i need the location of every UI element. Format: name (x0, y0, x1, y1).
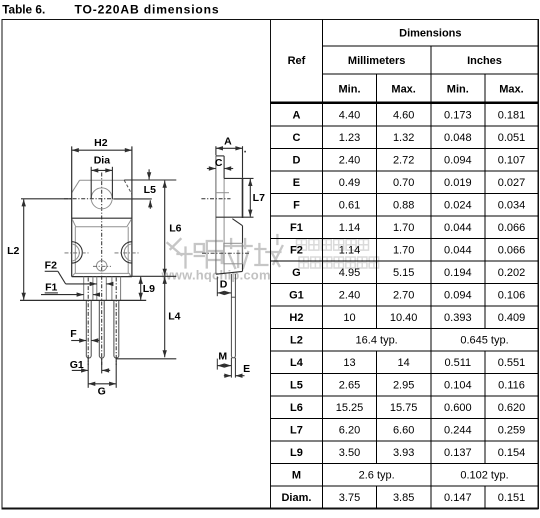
svg-text:3.93: 3.93 (393, 447, 414, 459)
svg-text:6.60: 6.60 (393, 425, 414, 437)
front view: body bottom corner diagonals (72, 273, 74, 276)
dim L2 top extension (21, 198, 72, 200)
front view: lead 3 shoulder (111, 277, 113, 301)
table grid lines (270, 20, 538, 509)
svg-text:0.094: 0.094 (444, 155, 472, 167)
svg-text:L6: L6 (169, 223, 181, 235)
svg-text:Dimensions: Dimensions (399, 27, 461, 39)
svg-text:10: 10 (343, 312, 355, 324)
svg-text:L9: L9 (143, 283, 155, 295)
svg-text:F1: F1 (290, 222, 303, 234)
svg-text:0.107: 0.107 (498, 155, 526, 167)
svg-text:10.40: 10.40 (390, 312, 418, 324)
side view: hole projection line (216, 192, 229, 194)
svg-text:0.173: 0.173 (444, 110, 472, 122)
dim L9 line (140, 277, 142, 300)
front view: body inner right face (127, 227, 129, 274)
watermark: small gray CJK lines right (297, 240, 379, 269)
front view: ejector pin circle (97, 261, 107, 271)
svg-text:L2: L2 (7, 245, 19, 257)
front view: body bottom inner line (75, 272, 130, 274)
svg-text:F: F (70, 328, 77, 340)
side view: hole centerline dashed (201, 198, 230, 200)
svg-text:0.88: 0.88 (393, 200, 414, 212)
svg-text:H2: H2 (289, 312, 303, 324)
svg-text:M: M (218, 351, 227, 363)
front view: vertical package centerline (101, 173, 103, 366)
front view: lead 3 narrow section (113, 300, 115, 356)
svg-text:0.194: 0.194 (444, 267, 472, 279)
dim G1 arrows (72, 369, 88, 371)
side view: body bottom edge (216, 271, 243, 274)
svg-text:0.70: 0.70 (393, 177, 414, 189)
svg-text:2.65: 2.65 (339, 380, 360, 392)
svg-text:0.154: 0.154 (498, 447, 526, 459)
side view: notch projection rectangle (224, 243, 243, 263)
dim C arrows (207, 168, 216, 170)
svg-text:2.95: 2.95 (393, 380, 414, 392)
svg-text:G1: G1 (289, 290, 304, 302)
seating plane line (20, 299, 146, 301)
svg-text:0.044: 0.044 (444, 222, 472, 234)
svg-text:1.32: 1.32 (393, 132, 414, 144)
front view: left side notch arcs (72, 242, 83, 263)
svg-text:1.70: 1.70 (393, 222, 414, 234)
svg-text:0.104: 0.104 (444, 380, 472, 392)
L5 lower reference extension (113, 198, 152, 200)
svg-text:Diam.: Diam. (281, 492, 311, 504)
svg-text:Ref: Ref (288, 55, 306, 67)
dim D line (217, 292, 231, 294)
front view: tab top edge (80, 179, 125, 181)
side view: notch centerline dashed (202, 252, 250, 254)
svg-text:0.019: 0.019 (444, 177, 472, 189)
front view: mounting hole (91, 188, 112, 209)
dim L2 line (23, 199, 25, 300)
svg-text:A: A (292, 110, 300, 122)
svg-text:L7: L7 (290, 425, 303, 437)
svg-text:F2: F2 (290, 245, 303, 257)
svg-text:Table 6.: Table 6. (2, 3, 45, 17)
svg-text:F: F (293, 200, 300, 212)
front view: lead 2 narrow section (98, 300, 100, 356)
dim L4 line (164, 277, 166, 358)
divider between figure and table (269, 20, 271, 510)
svg-text:Max.: Max. (391, 83, 415, 95)
front view: body bottom outer edge (72, 276, 132, 278)
front view: body step corner diagonals (72, 219, 76, 227)
side view: lead shoulder tick (231, 296, 235, 298)
svg-text:L2: L2 (290, 335, 303, 347)
front view: hole slot right edge / Dia extension (111, 167, 113, 199)
svg-text:TO-220AB dimensions: TO-220AB dimensions (75, 3, 220, 17)
svg-text:4.60: 4.60 (393, 110, 414, 122)
svg-text:Dia: Dia (94, 155, 111, 167)
side view: body top edge (224, 177, 253, 179)
front view: body top step line (76, 226, 127, 228)
front view: hole horizontal centerline (64, 198, 113, 200)
lead tips extension line (116, 358, 176, 360)
L5/L6 top extension line (124, 179, 176, 181)
svg-text:0.106: 0.106 (498, 290, 526, 302)
front view: tab bottom edge (72, 217, 132, 219)
svg-text:2.40: 2.40 (339, 155, 360, 167)
svg-text:E: E (243, 363, 250, 375)
svg-text:1.14: 1.14 (339, 245, 360, 257)
dim L5 lower arrow (149, 200, 151, 209)
dim E extension (234, 358, 236, 378)
svg-text:6.20: 6.20 (339, 425, 360, 437)
svg-text:0.147: 0.147 (444, 492, 472, 504)
svg-text:0.202: 0.202 (498, 267, 526, 279)
svg-text:2.40: 2.40 (339, 290, 360, 302)
svg-text:0.051: 0.051 (498, 132, 526, 144)
svg-text:0.61: 0.61 (339, 200, 360, 212)
svg-text:1.70: 1.70 (393, 245, 414, 257)
svg-text:14: 14 (398, 357, 410, 369)
svg-text:E: E (293, 177, 300, 189)
front view: lead 2 shoulder (96, 277, 98, 301)
svg-text:D: D (292, 155, 300, 167)
svg-text:15.25: 15.25 (336, 402, 364, 414)
dim A line (216, 147, 243, 149)
svg-text:0.645 typ.: 0.645 typ. (460, 335, 508, 347)
svg-text:0.066: 0.066 (498, 245, 526, 257)
svg-text:L4: L4 (290, 357, 304, 369)
G1/G extension lines below leads (87, 358, 89, 388)
svg-text:4.40: 4.40 (339, 110, 360, 122)
svg-text:Inches: Inches (467, 55, 502, 67)
stray dot (244, 151, 246, 153)
dim L5 upper arrow (148, 169, 150, 179)
side view: tab top edge (216, 155, 224, 157)
dim M extensions (216, 359, 218, 370)
svg-text:L7: L7 (253, 192, 265, 204)
svg-text:0.551: 0.551 (498, 357, 526, 369)
front view: tab top-right chamfer (dashed) (124, 180, 132, 194)
dim Dia line (91, 169, 112, 171)
svg-text:Millimeters: Millimeters (348, 55, 405, 67)
svg-text:L4: L4 (168, 311, 180, 323)
front view: ejector circle crosshair (93, 265, 111, 267)
front view: notch centerline dashes (65, 252, 90, 254)
front view: hole slot left edge / Dia extension (90, 167, 92, 199)
svg-text:4.95: 4.95 (339, 267, 360, 279)
svg-text:0.066: 0.066 (498, 222, 526, 234)
svg-text:0.137: 0.137 (444, 447, 472, 459)
side view: tab back face (215, 156, 217, 274)
svg-text:16.4 typ.: 16.4 typ. (356, 335, 398, 347)
svg-text:3.75: 3.75 (339, 492, 360, 504)
svg-text:0.151: 0.151 (498, 492, 526, 504)
svg-text:L5: L5 (144, 184, 156, 196)
svg-text:0.393: 0.393 (444, 312, 472, 324)
front view: right side notch arcs (121, 242, 132, 263)
svg-text:0.600: 0.600 (444, 402, 472, 414)
svg-text:Min.: Min. (339, 83, 361, 95)
svg-text:0.116: 0.116 (498, 380, 525, 392)
svg-text:D: D (220, 278, 228, 290)
svg-text:F2: F2 (45, 259, 57, 271)
dim M line (217, 365, 231, 367)
dim G line (88, 383, 116, 385)
svg-text:0.259: 0.259 (498, 425, 526, 437)
svg-text:0.094: 0.094 (444, 290, 472, 302)
svg-text:0.620: 0.620 (498, 402, 526, 414)
front view: lead 1 narrow section (85, 300, 87, 356)
svg-text:M: M (292, 470, 301, 482)
dim E arrows (224, 375, 232, 377)
side view: lead edges (230, 274, 232, 356)
front view: tab/body right outer edge + H2 extension (131, 146, 133, 276)
side view: body front face lower (242, 226, 244, 272)
front view: body inner left face (74, 227, 76, 274)
svg-text:0.024: 0.024 (444, 200, 472, 212)
svg-text:1.14: 1.14 (339, 222, 360, 234)
svg-text:2.70: 2.70 (393, 290, 414, 302)
svg-text:0.048: 0.048 (444, 132, 472, 144)
svg-text:G: G (98, 385, 106, 397)
front view: lead 1 centerline (87, 278, 89, 366)
svg-text:5.15: 5.15 (393, 267, 414, 279)
dim A extension lines (215, 146, 217, 155)
watermark: big gray "HQ chip city" CJK-style glyphs (168, 235, 283, 268)
svg-text:A: A (224, 136, 232, 148)
svg-text:1.23: 1.23 (339, 132, 360, 144)
dim D extension (216, 277, 218, 297)
svg-text:0.102 typ.: 0.102 typ. (460, 470, 508, 482)
svg-text:3.85: 3.85 (393, 492, 414, 504)
side view: tab front face (223, 156, 225, 179)
svg-text:Min.: Min. (447, 83, 469, 95)
front view: tab top-left chamfer (72, 180, 80, 193)
side view: body front face upper (242, 178, 244, 218)
svg-text:L6: L6 (290, 402, 303, 414)
dim L6 line (164, 181, 166, 276)
svg-text:H2: H2 (94, 137, 108, 149)
svg-text:0.181: 0.181 (498, 110, 526, 122)
body bottom extension line (129, 275, 177, 277)
side view: body chamfer diagonal (232, 219, 242, 226)
svg-text:L5: L5 (290, 380, 303, 392)
svg-text:0.044: 0.044 (444, 245, 472, 257)
svg-text:13: 13 (343, 357, 355, 369)
svg-text:3.50: 3.50 (339, 447, 360, 459)
svg-text:C: C (292, 132, 300, 144)
svg-text:C: C (215, 157, 223, 169)
front view: tab/body left outer edge + H2 extension (71, 146, 73, 276)
svg-text:0.244: 0.244 (444, 425, 472, 437)
svg-text:2.6 typ.: 2.6 typ. (359, 470, 395, 482)
svg-text:0.027: 0.027 (498, 177, 526, 189)
svg-text:0.409: 0.409 (498, 312, 526, 324)
svg-text:L9: L9 (290, 447, 303, 459)
svg-text:G1: G1 (70, 359, 84, 371)
svg-text:2.72: 2.72 (393, 155, 414, 167)
svg-text:0.034: 0.034 (498, 200, 526, 212)
front view: lead 3 centerline (115, 278, 117, 366)
svg-text:15.75: 15.75 (390, 402, 418, 414)
dim L7 line (249, 179, 251, 217)
front view: lead 1 shoulder (83, 277, 85, 301)
svg-text:0.511: 0.511 (444, 357, 471, 369)
svg-text:0.49: 0.49 (339, 177, 360, 189)
svg-text:F1: F1 (45, 281, 57, 293)
svg-text:G: G (292, 267, 301, 279)
svg-text:Max.: Max. (499, 83, 523, 95)
dim H2 line (72, 149, 132, 151)
side view: tab bottom line (216, 216, 254, 218)
